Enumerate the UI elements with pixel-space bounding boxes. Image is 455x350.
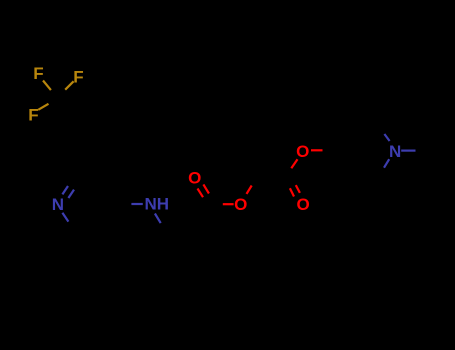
bond C2-O4 half [291, 159, 297, 168]
bond C2=O3 double line a [290, 188, 294, 196]
svg-text:N: N [52, 195, 64, 214]
bond N2-C up-left half [384, 134, 389, 141]
bond C-F1 half [43, 81, 51, 91]
bond C2=O3 double line b [296, 185, 300, 193]
svg-text:F: F [28, 106, 38, 125]
svg-text:O: O [188, 168, 201, 187]
bond O2-CH2 half [247, 186, 252, 194]
svg-text:F: F [33, 64, 43, 83]
bond N1=C2 double outer [62, 186, 68, 194]
bond N2-CH3 right half [401, 150, 415, 152]
bond C-F2 half [65, 81, 73, 89]
svg-text:O: O [297, 195, 310, 214]
bond N1-C6 half [62, 213, 68, 222]
bond C1-O2 half [223, 203, 234, 205]
svg-text:F: F [73, 67, 83, 86]
svg-text:N: N [389, 142, 401, 161]
bond NH-ringA half [131, 203, 142, 205]
svg-text:O: O [296, 142, 309, 161]
bond O4-CH half [311, 149, 323, 151]
bond C1=O1 double line b [203, 184, 209, 193]
bond N2-C down-left half [384, 159, 389, 168]
svg-text:O: O [234, 195, 247, 214]
bond C1=O1 double line a [198, 189, 204, 198]
bond N1=C2 double inner [68, 190, 74, 198]
bond C-F3 half [38, 104, 48, 110]
svg-text:NH: NH [145, 194, 170, 213]
bond NH-ringB half [155, 214, 161, 224]
